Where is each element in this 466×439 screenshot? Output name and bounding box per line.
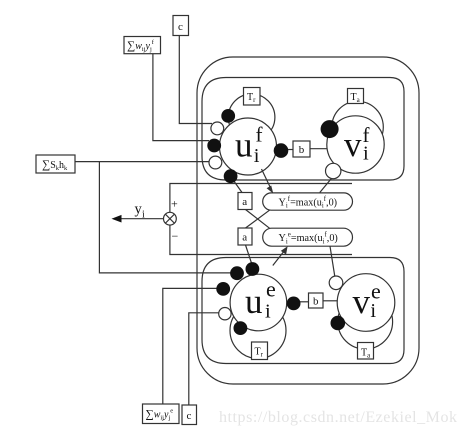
svg-text:https://blog.csdn.net/Ezekiel_: https://blog.csdn.net/Ezekiel_Mok [219, 409, 458, 426]
black dot loop end u_i^f [221, 109, 235, 123]
capsule Y_i^e=max(u_i^f,0) [263, 228, 353, 246]
box b bottom [309, 293, 324, 308]
svg-text:e: e [371, 279, 381, 304]
loop T_a circle of v_i^e [338, 294, 393, 349]
black dot loop end u_i^e [234, 321, 248, 335]
wire: u_i^f right dot to box b [288, 149, 293, 151]
svg-text:−: − [172, 229, 179, 243]
box b top [293, 141, 310, 157]
svg-text:f: f [363, 123, 370, 147]
white input from c [211, 122, 224, 135]
loop T_r circle of u_i^f [228, 94, 275, 141]
black input from sum w y^f [207, 139, 221, 153]
box sum w_ij y_j^e [143, 404, 180, 424]
wire: capsule2 bottom to v_i^e white input [330, 246, 335, 276]
arrowhead into capsule2 [281, 246, 288, 254]
svg-text:v: v [344, 125, 362, 164]
black dot input from sum w y^e [216, 282, 230, 296]
svg-text:a: a [242, 196, 247, 208]
box sum S_k h_k [36, 155, 75, 173]
svg-text:+: + [171, 197, 178, 211]
wire: c top box down and right to u_i^f white input [179, 36, 212, 124]
wire plus: from multiplier top to capsule1 level [170, 184, 352, 213]
wire: u_i^e right dot to box b [300, 301, 309, 303]
svg-text:u: u [235, 126, 253, 165]
wire: sum w y^e box up and right to u_i^e black input [163, 288, 217, 404]
wire: u_i^e to capsule Y_i^e (arrow) [273, 248, 287, 266]
outer rounded box [197, 57, 419, 384]
box T_a bottom [358, 343, 374, 360]
output arrow y_i [117, 218, 164, 220]
svg-text:e: e [266, 277, 276, 302]
white circle bottom v_i^f [326, 163, 341, 178]
capsule Y_i^f=max(u_i^f,0) [263, 193, 353, 210]
wire: u_i^f to capsule Y_i^f (arrow) [262, 169, 273, 191]
wire: branch of sum S h down to u_i^e black input [99, 162, 231, 273]
inner bottom rounded box (e-layer) [202, 258, 404, 364]
wire: box b to v_i^f [310, 148, 327, 150]
svg-text:Yie=max(uif,0): Yie=max(uif,0) [279, 232, 338, 246]
svg-text:a: a [242, 232, 247, 244]
white input from c bottom [219, 308, 231, 320]
loop T_r circle of u_i^e [230, 303, 286, 359]
box T_r top [244, 88, 261, 106]
multiplier node (circle with X) [164, 212, 177, 225]
svg-text:i: i [265, 301, 271, 323]
box a2 [238, 228, 252, 245]
svg-text:b: b [299, 144, 305, 156]
svg-text:i: i [254, 145, 260, 167]
black dot right u_i^f to b [274, 143, 289, 158]
white circle top v_i^e [329, 276, 343, 290]
arrowhead into capsule1 [267, 186, 274, 194]
wire: sum S h box right to u_i^f white input [75, 161, 210, 163]
svg-text:v: v [353, 282, 371, 321]
neuron u_i^f [220, 118, 277, 175]
wire: box a1 to capsule2 left end [246, 210, 270, 229]
box c top [173, 16, 189, 36]
neuron v_i^e [337, 274, 395, 332]
wire: c bottom box up and right to u_i^e white input [189, 313, 219, 405]
svg-text:b: b [313, 296, 319, 308]
wire: sum w y^f box down and right to u_i^f black input [153, 54, 209, 141]
diagonal connection lines [231, 149, 337, 302]
neuron u_i^e [230, 274, 287, 331]
inner top rounded box (f-layer) [202, 78, 404, 181]
box c bottom [182, 405, 197, 425]
wire: capsule1 top to v_i^f white input [320, 178, 332, 193]
box T_a top [348, 89, 364, 104]
svg-text:c: c [178, 21, 183, 33]
wire: capsule1 left end to box a2 [246, 210, 270, 228]
black dot right u_i^e to b [287, 297, 301, 311]
white input from sum S h [209, 156, 222, 169]
loop T_a circle of v_i^f [332, 101, 383, 152]
black dot loop end v_i^e [331, 316, 346, 331]
black dot input from feedback [230, 266, 244, 280]
wire: box b to v_i^e [323, 300, 337, 302]
svg-text:u: u [245, 282, 263, 321]
box a1 [238, 193, 252, 210]
black dot loop end v_i^f [321, 120, 339, 138]
wire: u_i^f bottom dot to box a1 [231, 177, 242, 193]
svg-text:c: c [187, 410, 192, 422]
box sum w_ij y_j^f [124, 37, 161, 54]
svg-text:f: f [256, 123, 263, 147]
svg-text:Yif=max(uif,0): Yif=max(uif,0) [279, 196, 338, 210]
wire: box a2 to u_i^e top dot [246, 245, 252, 264]
black dot input from a2 [246, 262, 260, 276]
wire minus: from multiplier bottom along bottom of mid area [170, 225, 352, 254]
neuron v_i^f [327, 116, 384, 173]
black dot bottom u_i^f [224, 169, 238, 183]
svg-text:i: i [142, 210, 145, 221]
box T_r bottom [252, 342, 268, 360]
